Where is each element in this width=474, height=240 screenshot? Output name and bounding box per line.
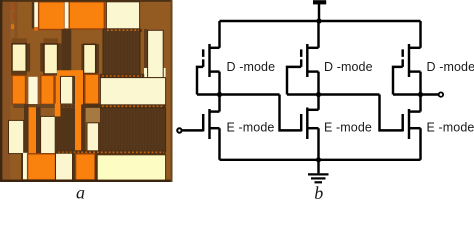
channel bar xyxy=(208,109,210,139)
cream row xyxy=(26,44,30,72)
output port circle xyxy=(439,92,443,96)
wire drain column xyxy=(218,21,220,48)
transistor Q2 E-mode (driver) xyxy=(203,95,219,160)
wire gate-to-source loop xyxy=(393,67,403,95)
wire input lead xyxy=(182,129,204,131)
gate bar xyxy=(202,114,204,131)
gate bar xyxy=(300,114,302,131)
wire: bottom ground rail xyxy=(220,159,421,161)
wire link stage2->stage3 gate xyxy=(380,95,403,131)
node stage1 output xyxy=(197,93,280,95)
gate bar xyxy=(401,114,403,131)
source arm xyxy=(210,127,220,129)
svg-text:E -mode: E -mode xyxy=(227,120,275,134)
drain arm xyxy=(210,47,220,49)
wire source column to node xyxy=(419,72,421,95)
svg-text:D -mode: D -mode xyxy=(324,60,373,74)
orange bar + dark col + tan + cream J xyxy=(75,104,81,151)
node VDD stub xyxy=(318,4,320,21)
transistor Q3 D-mode (depletion load) xyxy=(287,21,319,95)
svg-text:E -mode: E -mode xyxy=(324,120,372,134)
transistor Q5 D-mode (depletion load) xyxy=(393,21,421,95)
source arm xyxy=(307,70,318,72)
channel bar xyxy=(408,44,410,77)
transistor Q1 D-mode (depletion load) xyxy=(197,21,220,95)
svg-text:D -mode: D -mode xyxy=(227,60,276,74)
wire: top VDD rail xyxy=(220,20,421,22)
left digit strip xyxy=(2,2,10,180)
channel bar xyxy=(306,108,308,140)
dash row below cream E + dark block 2 xyxy=(13,104,55,108)
svg-text:E -mode: E -mode xyxy=(427,120,474,134)
drain arm xyxy=(409,47,421,49)
channel bar xyxy=(306,44,308,77)
transistor Q6 E-mode (driver) xyxy=(403,95,421,160)
wire drain column xyxy=(419,95,421,112)
svg-text:a: a xyxy=(76,183,85,202)
input port circle xyxy=(177,128,181,132)
top orange row xyxy=(11,24,14,29)
dark block 1 with dash row xyxy=(103,29,142,32)
node stage2 output xyxy=(287,93,380,95)
channel bar xyxy=(408,109,410,139)
wire drain column xyxy=(218,95,220,112)
wire drain column xyxy=(317,21,319,48)
channel bar xyxy=(208,44,210,77)
node VDD terminal bar xyxy=(313,0,326,4)
cream column right xyxy=(148,30,164,78)
source arm xyxy=(409,127,421,129)
wire drain column xyxy=(317,95,319,110)
wire source column to rail xyxy=(218,128,220,160)
wire source column to node xyxy=(317,72,319,95)
wire source column to rail xyxy=(317,128,319,160)
wire link stage1->stage2 gate xyxy=(280,95,302,131)
photo borders xyxy=(0,0,173,2)
source arm xyxy=(409,70,421,72)
wire source column to rail xyxy=(419,128,421,160)
drain arm xyxy=(210,110,220,112)
transistor Q4 E-mode (driver) xyxy=(301,95,318,160)
dark band + dash row above cream E xyxy=(100,74,144,78)
drain arm xyxy=(307,109,318,111)
source arm xyxy=(210,70,220,72)
svg-text:1: 1 xyxy=(11,12,17,23)
gate bar (dashed, depletion) xyxy=(202,49,204,67)
svg-text:b: b xyxy=(314,183,323,201)
source arm xyxy=(307,127,318,129)
gate bar (dashed, depletion) xyxy=(401,49,403,67)
wire gate-to-source loop xyxy=(197,67,203,95)
node junction dot VDD-rail xyxy=(316,18,321,23)
bottom dash row xyxy=(55,150,166,154)
drain arm xyxy=(409,110,421,112)
middle-left column area xyxy=(24,104,29,154)
dark col below slot1 xyxy=(62,29,72,71)
ground xyxy=(308,157,329,182)
wire source column to node xyxy=(218,72,220,95)
drain arm xyxy=(307,47,318,49)
bottom band xyxy=(21,153,23,180)
svg-text:D -mode: D -mode xyxy=(427,60,474,74)
node stage3 output xyxy=(393,93,439,95)
cream E big xyxy=(100,78,165,106)
gate bar (dashed, depletion) xyxy=(300,49,302,67)
orange row xyxy=(11,71,27,75)
wire drain column xyxy=(419,21,421,48)
wire gate-to-source loop xyxy=(287,67,301,95)
